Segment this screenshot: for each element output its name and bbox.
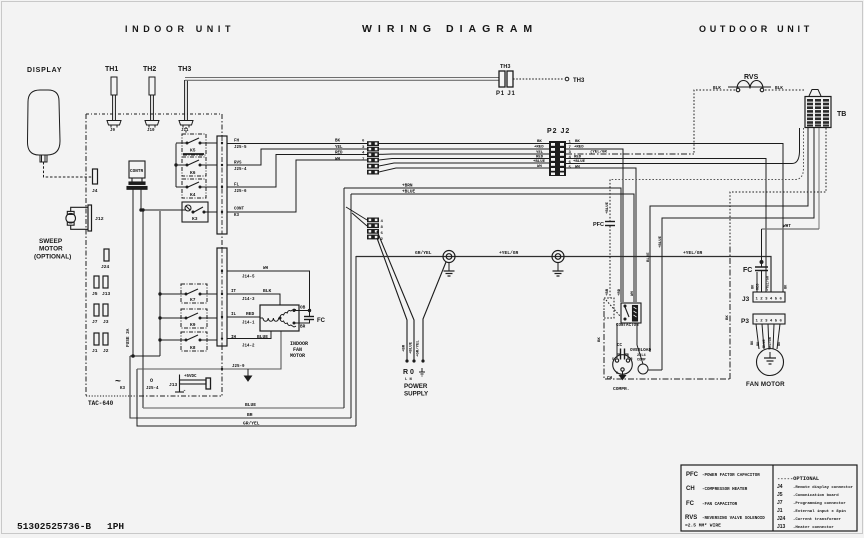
svg-text:FL: FL bbox=[234, 184, 240, 188]
svg-text:K7: K7 bbox=[190, 297, 196, 303]
indoor fan motor bbox=[260, 305, 299, 331]
svg-text:+RED: +RED bbox=[534, 146, 544, 150]
svg-text:J11: J11 bbox=[181, 129, 189, 133]
svg-text:K5: K5 bbox=[190, 148, 196, 154]
svg-text:-External input x 8pin: -External input x 8pin bbox=[793, 509, 846, 514]
svg-text:TAC-640: TAC-640 bbox=[88, 400, 114, 407]
power cord diagonal BR bbox=[377, 238, 407, 361]
wire FL J25-6 bbox=[227, 155, 367, 188]
wire entries into TB top bbox=[809, 90, 821, 97]
power cord diagonal BLUE bbox=[377, 231, 414, 361]
connector bar 2 (J14 strip) bbox=[217, 248, 227, 346]
svg-text:J3: J3 bbox=[103, 319, 109, 325]
connector block J25 power (4 pin-pair modules) bbox=[367, 218, 379, 240]
relay K7 bbox=[160, 284, 217, 303]
svg-text:IH: IH bbox=[231, 336, 237, 340]
svg-text:TH3: TH3 bbox=[178, 66, 191, 73]
svg-text:FC: FC bbox=[686, 501, 695, 507]
svg-text:BR: BR bbox=[247, 412, 253, 418]
connector P3 bbox=[753, 314, 785, 324]
thermistor TH2 bbox=[145, 77, 159, 128]
svg-text:IT: IT bbox=[231, 290, 237, 294]
junction dots on connector bars bbox=[221, 142, 223, 370]
CC capacitor bbox=[617, 323, 628, 360]
svg-text:RED: RED bbox=[246, 311, 255, 317]
svg-text:WIRING DIAGRAM: WIRING DIAGRAM bbox=[362, 23, 538, 35]
outdoor fan motor bbox=[757, 349, 784, 376]
svg-text:P2 J2: P2 J2 bbox=[547, 128, 570, 135]
connector J11 for TH3 bbox=[179, 80, 193, 128]
svg-text:+YEL/GR: +YEL/GR bbox=[766, 275, 771, 291]
svg-text:1 2 3 4 5 6: 1 2 3 4 5 6 bbox=[756, 320, 783, 324]
contactor bbox=[621, 303, 641, 323]
wire BLUE loop bottom bbox=[143, 407, 344, 409]
wire TB to BK bus (curve) bbox=[0, 0, 1, 1]
connector J24 bbox=[104, 249, 109, 261]
svg-text:TB: TB bbox=[837, 111, 846, 118]
svg-text:K4: K4 bbox=[190, 192, 196, 198]
connector J4 bbox=[93, 169, 98, 184]
wire GR/YEL loop left bbox=[137, 369, 356, 426]
P3 to fan motor wires bbox=[756, 324, 780, 349]
svg-text:J25-4: J25-4 bbox=[146, 387, 159, 391]
svg-text:J14-5: J14-5 bbox=[242, 276, 255, 280]
svg-text:FH: FH bbox=[234, 140, 240, 144]
svg-text:K3: K3 bbox=[120, 387, 126, 391]
svg-text:FC: FC bbox=[743, 267, 752, 274]
wire WH J14-5 bbox=[227, 271, 310, 311]
wire BR loop left bbox=[130, 356, 351, 418]
vertical br power riser bbox=[350, 194, 352, 418]
svg-text:FUSE 3A: FUSE 3A bbox=[126, 328, 131, 347]
connector P2 J2 bbox=[549, 141, 566, 176]
svg-text:K3: K3 bbox=[234, 214, 240, 218]
relay K4 bbox=[176, 157, 217, 176]
wires connector to P2 bbox=[379, 144, 550, 173]
svg-text:J1: J1 bbox=[92, 348, 98, 354]
svg-text:J25-9: J25-9 bbox=[232, 365, 245, 369]
svg-text:+YEL/GR: +YEL/GR bbox=[683, 250, 703, 256]
dashed wire J11 to K5 bbox=[185, 127, 187, 134]
svg-text:BK: BK bbox=[537, 140, 542, 144]
svg-text:J7: J7 bbox=[777, 500, 783, 506]
wire TB down dotted to WHT bbox=[818, 128, 820, 229]
svg-text:SWEEP: SWEEP bbox=[39, 238, 63, 245]
svg-text:-: - bbox=[183, 388, 186, 394]
svg-text:IL: IL bbox=[231, 313, 237, 317]
svg-text:J13: J13 bbox=[777, 524, 786, 530]
svg-text:+BRN: +BRN bbox=[402, 184, 413, 189]
svg-text:BLUE: BLUE bbox=[763, 339, 767, 348]
svg-text:COMPR.: COMPR. bbox=[613, 386, 630, 392]
svg-text:TH1: TH1 bbox=[105, 66, 118, 73]
svg-text:-Comonication board: -Comonication board bbox=[793, 493, 839, 498]
svg-text:J10: J10 bbox=[147, 129, 155, 133]
svg-text:J4: J4 bbox=[92, 188, 98, 194]
svg-text:L N: L N bbox=[405, 378, 413, 382]
svg-text:R 0: R 0 bbox=[403, 369, 414, 376]
svg-text:-REVERSING VALVE SOLENOID: -REVERSING VALVE SOLENOID bbox=[702, 517, 765, 521]
vertical gr/yel riser bbox=[355, 256, 357, 426]
power cord diagonal GR/YEL bbox=[423, 262, 446, 361]
terminal block TB bbox=[805, 97, 831, 128]
svg-text:+BR: +BR bbox=[403, 344, 407, 352]
svg-text:OB: OB bbox=[300, 306, 306, 311]
svg-text:O: O bbox=[150, 378, 153, 384]
wire WH P2 to contactor area bbox=[566, 168, 636, 302]
power supply terminals bbox=[405, 359, 424, 362]
svg-text:FC: FC bbox=[317, 318, 326, 324]
svg-text:J14-2: J14-2 bbox=[242, 345, 255, 349]
connector P1 J1 bbox=[499, 71, 513, 87]
earth terminal 2 bbox=[552, 251, 564, 277]
left bus for relays bbox=[175, 144, 177, 188]
wire TH3 twisted pair to P1 bbox=[185, 78, 499, 81]
svg-text:-FAN CAPACITOR: -FAN CAPACITOR bbox=[702, 503, 738, 507]
wire IH J14-2 BLUE bbox=[227, 331, 271, 339]
wire CONT K3 bbox=[227, 160, 367, 212]
svg-text:BLK: BLK bbox=[263, 288, 272, 294]
wire RED P2 to J3 pin2 bbox=[566, 159, 766, 293]
contactor coil (dotted box) bbox=[604, 298, 620, 318]
svg-text:+YEL/GR: +YEL/GR bbox=[499, 250, 519, 256]
svg-text:WH: WH bbox=[631, 291, 635, 296]
svg-text:GR/YEL: GR/YEL bbox=[415, 250, 432, 256]
wire BLUE TB to compressor bbox=[650, 128, 808, 352]
svg-text:J9: J9 bbox=[110, 129, 116, 133]
svg-text:-Remote display connector: -Remote display connector bbox=[793, 485, 854, 490]
wire RVS right leg (dotted) bbox=[765, 89, 805, 91]
svg-text:TH3: TH3 bbox=[500, 64, 510, 70]
wire CONTR down-right to K3 line bbox=[140, 189, 142, 211]
CONTR block bbox=[127, 161, 147, 189]
dash-dot compressor section border bbox=[604, 245, 731, 379]
svg-text:TH2: TH2 bbox=[143, 66, 156, 73]
svg-text:+BLUE: +BLUE bbox=[606, 201, 610, 214]
svg-text:-Heater connector: -Heater connector bbox=[793, 525, 834, 530]
wire FH J25-5 bbox=[227, 143, 367, 145]
svg-text:-COMPRESSOR HEATER: -COMPRESSOR HEATER bbox=[702, 488, 748, 492]
svg-text:J4: J4 bbox=[777, 484, 783, 490]
svg-text:OUTDOOR UNIT: OUTDOOR UNIT bbox=[699, 24, 813, 34]
svg-text:P1 J1: P1 J1 bbox=[496, 91, 516, 97]
legend box bbox=[681, 465, 857, 531]
J3 wires stubs bbox=[756, 272, 758, 292]
wire +BRN to contactor bbox=[344, 188, 621, 302]
wires OB BR to FC cap bbox=[294, 309, 314, 323]
svg-text:J14-3: J14-3 bbox=[242, 298, 255, 302]
compressor earth bbox=[620, 371, 626, 380]
svg-text:CC: CC bbox=[617, 344, 623, 348]
svg-text:RVS: RVS bbox=[234, 162, 242, 166]
ground bus +YEL/GR bbox=[356, 257, 771, 293]
svg-text:J1: J1 bbox=[777, 508, 783, 514]
svg-text:INDOOR UNIT: INDOOR UNIT bbox=[125, 24, 235, 34]
svg-text:51302525736-B: 51302525736-B bbox=[17, 521, 91, 532]
svg-text:J13: J13 bbox=[169, 382, 178, 388]
svg-text:PFC: PFC bbox=[686, 472, 699, 478]
wire YEL/GR dash-dot to RVS bbox=[566, 153, 694, 155]
wire WHT to FC bbox=[762, 228, 820, 230]
svg-text:WH: WH bbox=[263, 267, 269, 271]
wire IL J14-1 RED bbox=[227, 316, 260, 318]
connector bar 1 (J25 strip) bbox=[217, 136, 227, 234]
svg-text:+GR/YEL: +GR/YEL bbox=[416, 340, 421, 357]
svg-text:S: S bbox=[612, 357, 614, 361]
svg-text:YEL/GR: YEL/GR bbox=[768, 336, 773, 350]
svg-text:MOTOR: MOTOR bbox=[39, 246, 63, 253]
svg-text:DISPLAY: DISPLAY bbox=[27, 67, 62, 74]
svg-text:BK: BK bbox=[726, 315, 730, 320]
relay K3 bbox=[141, 202, 217, 222]
svg-text:+BLUE: +BLUE bbox=[402, 190, 416, 195]
connectors J1 J2 bbox=[94, 333, 108, 345]
svg-text:J13: J13 bbox=[102, 291, 111, 297]
connectors J7 J3 bbox=[94, 304, 108, 316]
svg-text:OVERLOAD: OVERLOAD bbox=[630, 348, 651, 353]
wire RED P2 to J3 bbox=[566, 149, 623, 302]
svg-text:BK: BK bbox=[598, 337, 602, 342]
connector block J15 (6 pin-pair modules) bbox=[367, 141, 379, 174]
overload disc bbox=[637, 345, 662, 374]
svg-text:-Current transformer: -Current transformer bbox=[793, 517, 842, 522]
svg-text:+BR: +BR bbox=[606, 288, 610, 296]
wire to remote TH3 (dashed) bbox=[513, 77, 569, 81]
svg-text:-----OPTIONAL: -----OPTIONAL bbox=[777, 476, 819, 482]
svg-text:FAN MOTOR: FAN MOTOR bbox=[746, 381, 785, 388]
wire CONTR down-left bbox=[132, 189, 134, 356]
relay K8 bbox=[160, 332, 217, 351]
wire J25-9 with ground arrow bbox=[137, 331, 281, 369]
wire RVS J25-4 bbox=[227, 149, 367, 165]
svg-text:WHT: WHT bbox=[783, 224, 791, 229]
svg-text:J5: J5 bbox=[777, 492, 783, 498]
svg-text:RVS: RVS bbox=[685, 515, 697, 521]
svg-text:GR/YEL: GR/YEL bbox=[243, 421, 260, 427]
wire contactor to compressor bbox=[636, 323, 638, 345]
wire display to J4 (dashed) bbox=[44, 162, 93, 177]
relay K9 bbox=[160, 309, 217, 328]
svg-text:BLUE: BLUE bbox=[257, 334, 268, 340]
svg-text:(OPTIONAL): (OPTIONAL) bbox=[34, 254, 71, 261]
vertical bus x160 bbox=[159, 211, 161, 356]
svg-text:~: ~ bbox=[115, 376, 121, 387]
svg-text:+BLUE: +BLUE bbox=[410, 341, 414, 354]
svg-text:CONT: CONT bbox=[234, 208, 245, 212]
svg-text:POWER: POWER bbox=[404, 383, 428, 390]
svg-text:TH3: TH3 bbox=[573, 78, 585, 84]
display unit bbox=[27, 90, 60, 162]
svg-text:J25-6: J25-6 bbox=[234, 190, 247, 194]
svg-text:J2: J2 bbox=[103, 348, 109, 354]
wire IT J14-3 BLK bbox=[227, 294, 280, 305]
svg-text:+RD: +RD bbox=[618, 288, 622, 296]
svg-text:J3: J3 bbox=[742, 296, 750, 303]
svg-text:28L4: 28L4 bbox=[637, 354, 646, 358]
wire BK P2 to TB bbox=[566, 144, 783, 293]
svg-text:RED: RED bbox=[757, 283, 761, 290]
svg-text:BR: BR bbox=[300, 325, 306, 330]
optional dotted bus from TB bbox=[610, 128, 804, 180]
taps into power connector bbox=[346, 207, 367, 226]
svg-text:K8: K8 bbox=[190, 345, 196, 351]
svg-text:+5VDC: +5VDC bbox=[184, 375, 197, 379]
svg-text:J25-5: J25-5 bbox=[234, 146, 247, 150]
PFC capacitor (dotted optional) bbox=[605, 180, 615, 299]
svg-text:K9: K9 bbox=[190, 322, 196, 328]
connectors J5 J13 bbox=[94, 276, 108, 288]
svg-text:BLUE: BLUE bbox=[647, 252, 651, 262]
svg-text:+BLUE: +BLUE bbox=[659, 235, 663, 248]
svg-text:+BLUE: +BLUE bbox=[533, 160, 546, 164]
svg-text:YEL: YEL bbox=[335, 146, 343, 150]
svg-text:SUPPLY: SUPPLY bbox=[404, 391, 429, 398]
svg-text:BLUE: BLUE bbox=[245, 402, 256, 408]
svg-text:RVS: RVS bbox=[744, 74, 759, 81]
svg-text:CH: CH bbox=[686, 486, 695, 492]
svg-text:WH: WH bbox=[335, 158, 341, 162]
wire +BLUE P2 to compressor bbox=[566, 128, 800, 164]
svg-text:K3: K3 bbox=[192, 216, 198, 222]
svg-text:YEL: YEL bbox=[536, 151, 544, 155]
svg-text:1 2 3 4 5 6: 1 2 3 4 5 6 bbox=[756, 298, 783, 302]
earth terminal 1 bbox=[443, 251, 455, 277]
wire CH optional dotted TB to compressor bbox=[730, 128, 826, 245]
svg-text:-Programming connector: -Programming connector bbox=[793, 501, 846, 506]
svg-text:WH: WH bbox=[537, 165, 542, 169]
horizontal link y356 bbox=[130, 355, 160, 358]
relay K5 bbox=[176, 134, 217, 155]
svg-text:J14-1: J14-1 bbox=[242, 322, 255, 326]
svg-text:J7: J7 bbox=[92, 319, 98, 325]
connector J3 bbox=[753, 292, 785, 302]
sweep motor bbox=[66, 205, 92, 231]
compressor bbox=[613, 355, 633, 375]
svg-text:RED: RED bbox=[335, 152, 343, 156]
svg-text:=2.5 MM² WIRE: =2.5 MM² WIRE bbox=[685, 523, 721, 529]
svg-text:R: R bbox=[631, 357, 633, 361]
svg-text:J24: J24 bbox=[101, 264, 110, 270]
svg-text:1PH: 1PH bbox=[107, 521, 124, 532]
svg-text:RED: RED bbox=[536, 156, 544, 160]
svg-text:K6: K6 bbox=[190, 170, 196, 176]
svg-text:CONTR: CONTR bbox=[130, 169, 144, 174]
svg-text:J25-4: J25-4 bbox=[234, 168, 247, 172]
wire +BLUE to contactor bbox=[351, 194, 634, 302]
FC fan capacitor bbox=[755, 229, 768, 292]
svg-text:J12: J12 bbox=[95, 216, 104, 222]
wire +BLUE TB to overload bbox=[662, 128, 814, 370]
thermistor TH1 bbox=[107, 77, 121, 128]
svg-text:PFC: PFC bbox=[593, 222, 604, 228]
relay K6 bbox=[176, 179, 217, 198]
heater connector J13 bbox=[175, 375, 211, 393]
svg-text:BK: BK bbox=[335, 140, 341, 144]
TAC-640 board boundary (dash-dot) bbox=[86, 114, 222, 396]
vertical bus x143 (blue return) bbox=[142, 209, 144, 408]
wire RVS left leg (dotted) bbox=[694, 90, 735, 154]
svg-text:CONTACTOR: CONTACTOR bbox=[616, 324, 639, 328]
vertical blue power riser bbox=[343, 188, 345, 408]
svg-text:J24: J24 bbox=[777, 516, 786, 522]
svg-text:J5: J5 bbox=[92, 291, 98, 297]
svg-text:MOTOR: MOTOR bbox=[290, 353, 305, 359]
svg-text:-POWER FACTOR CAPACITOR: -POWER FACTOR CAPACITOR bbox=[702, 474, 760, 478]
svg-text:P3: P3 bbox=[741, 318, 749, 325]
svg-text:C: C bbox=[616, 371, 618, 375]
